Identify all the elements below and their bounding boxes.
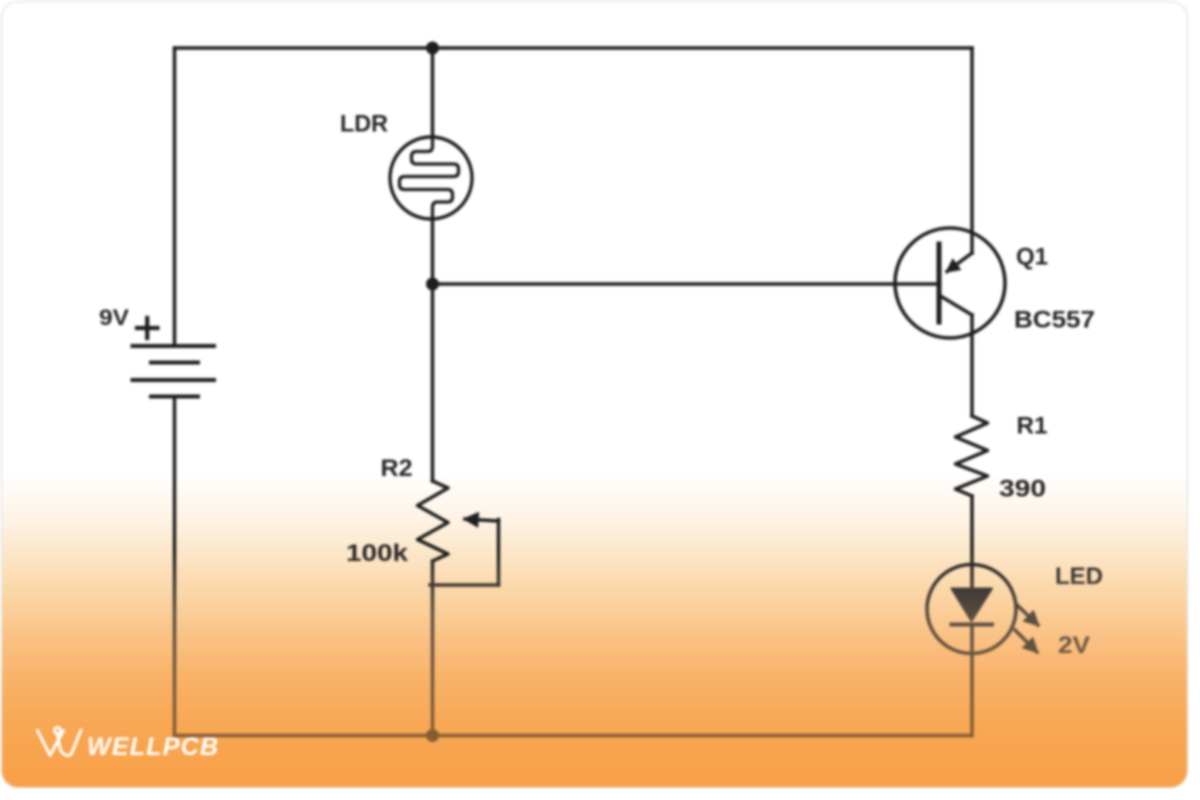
potentiometer R2 wiper arrow — [465, 519, 499, 521]
battery B1 plate short — [151, 361, 198, 365]
potentiometer R2 zigzag — [418, 481, 449, 561]
wire LED to bottom rail — [970, 625, 974, 736]
node A top junction — [426, 42, 439, 55]
battery plus sign — [137, 318, 158, 338]
node B mid junction — [426, 278, 439, 291]
transistor Q1 collector diagonal — [941, 296, 973, 315]
battery B1 plate long top — [133, 344, 215, 348]
node C bottom junction — [426, 729, 439, 742]
LED D1 emission arrow upper — [1017, 605, 1038, 625]
wire LDR bottom — [431, 218, 435, 284]
LED D1 emission arrow lower — [1015, 630, 1037, 652]
battery B1 plate short bottom — [151, 395, 198, 399]
wire emitter (top rail to Q1) — [970, 48, 974, 253]
wire base (node B to Q1) — [433, 282, 937, 286]
wire R1 to LED — [970, 496, 974, 588]
LED D1 triangle — [952, 589, 993, 622]
wire left rail (battery top) — [173, 48, 177, 345]
LED D1 cathode bar — [952, 623, 993, 627]
potentiometer R2 wiper right wire — [497, 520, 501, 586]
LDR body circle — [390, 137, 472, 219]
logo WELLPCB mark — [38, 727, 82, 755]
wire left rail (battery bottom) — [173, 397, 177, 736]
wire bottom rail — [175, 734, 973, 738]
wire node B to R2 — [431, 284, 435, 481]
transistor Q1 base bar — [937, 244, 942, 322]
battery B1 plate long — [133, 378, 215, 382]
potentiometer R2 wiper bottom wire — [430, 583, 499, 587]
LDR serpentine track — [400, 139, 459, 218]
wire collector to R1 — [970, 315, 974, 416]
resistor R1 zigzag — [956, 416, 988, 496]
wire R2 bottom to rail — [431, 562, 435, 736]
LED D1 body circle — [927, 565, 1016, 654]
wire top rail — [175, 46, 973, 50]
transistor Q1 emitter diagonal with arrow — [947, 253, 972, 272]
wire LDR top — [431, 48, 435, 137]
svg-text:WELLPCB: WELLPCB — [87, 733, 219, 761]
transistor Q1 body circle — [895, 228, 1005, 338]
